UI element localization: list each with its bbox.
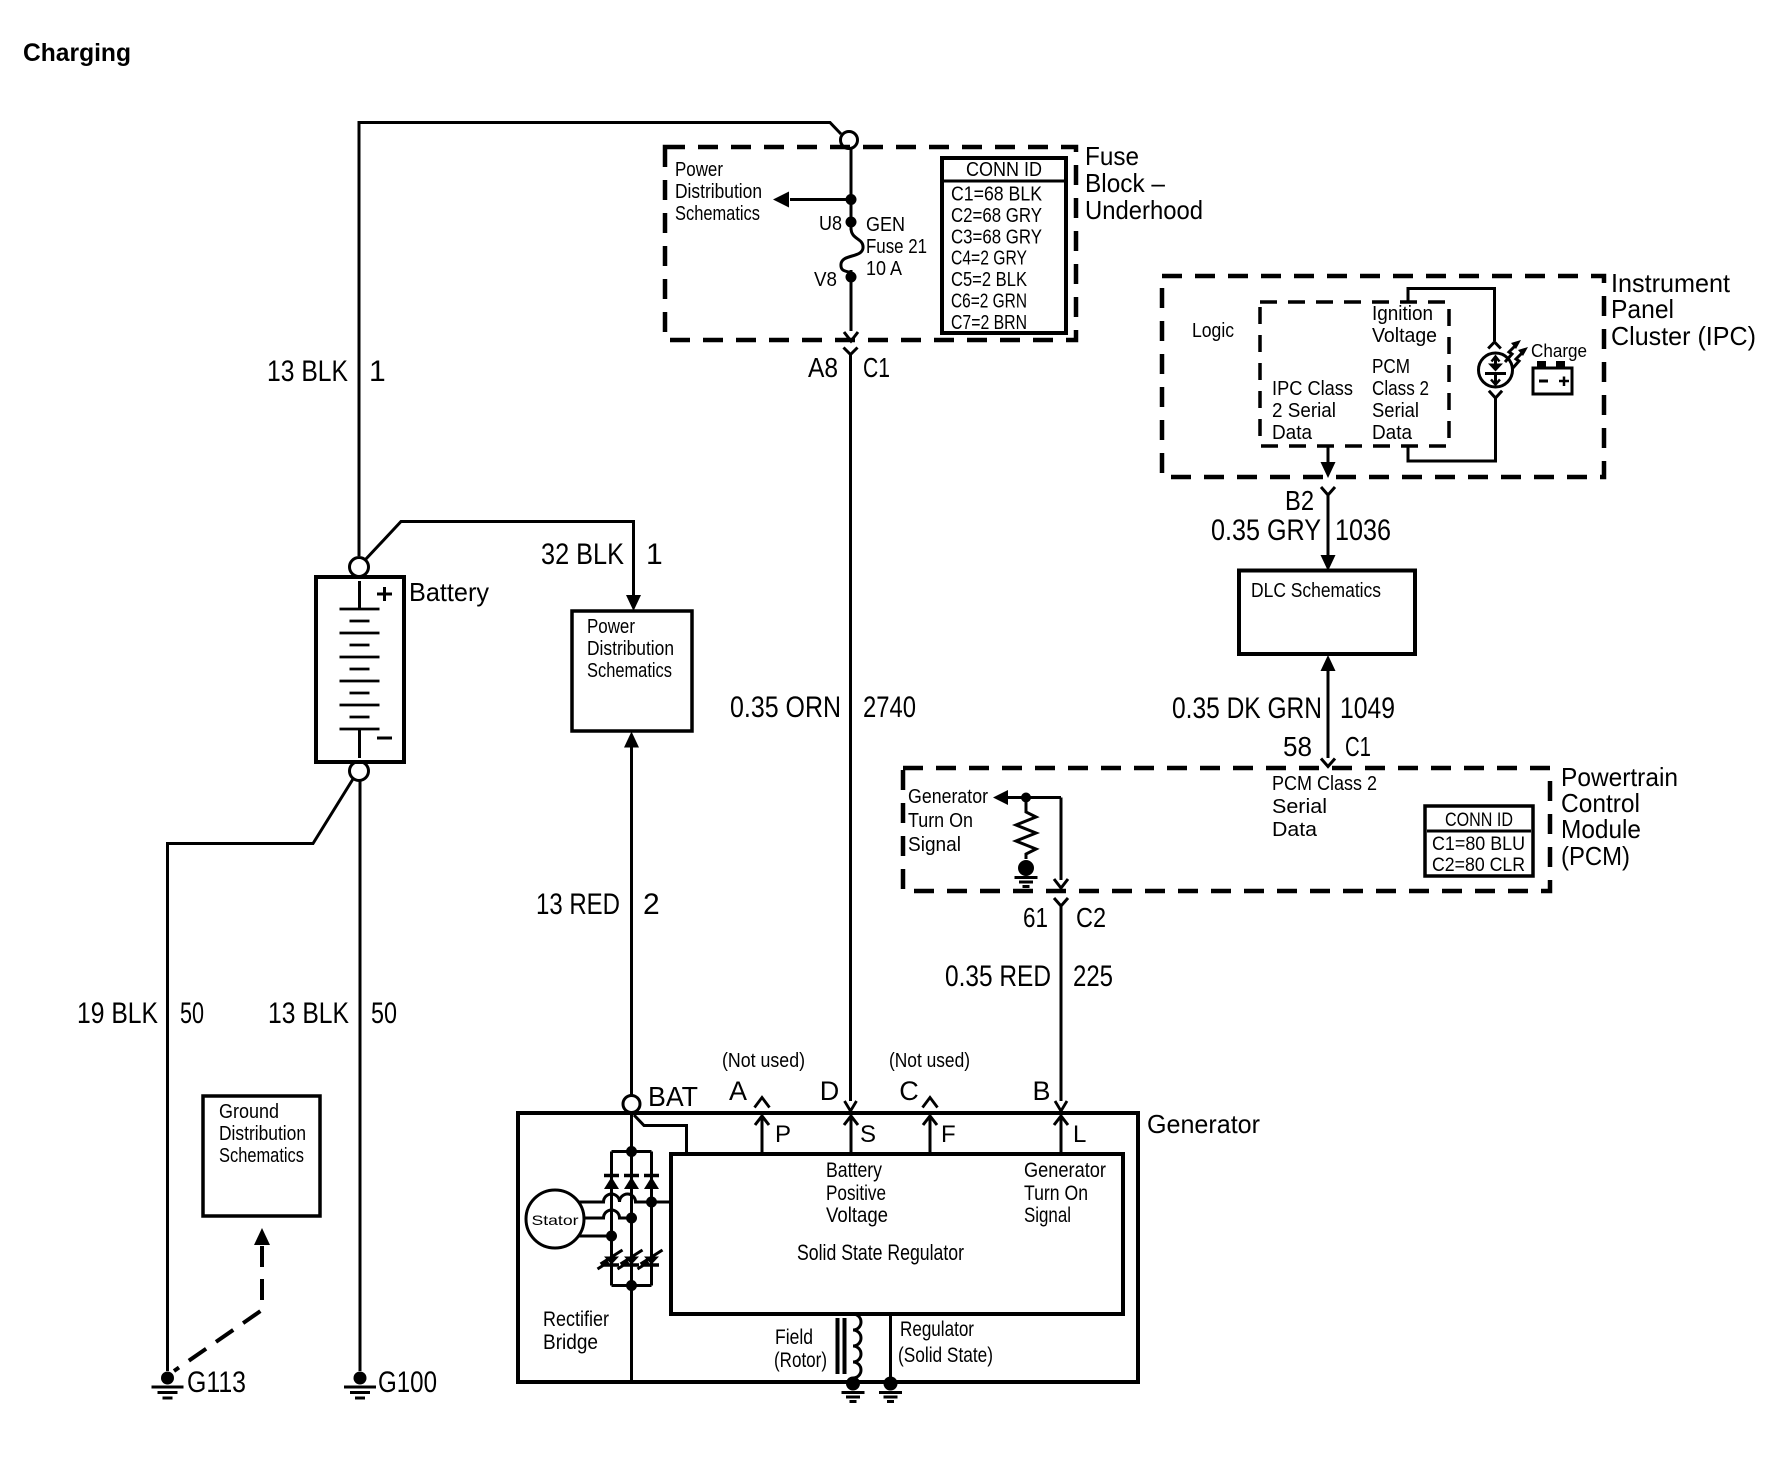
svg-text:DLC Schematics: DLC Schematics [1251,580,1381,602]
svg-text:Distribution: Distribution [587,638,674,660]
svg-text:Positive: Positive [826,1182,886,1205]
svg-text:Rectifier: Rectifier [543,1308,609,1331]
svg-text:Data: Data [1372,422,1413,444]
svg-text:(PCM): (PCM) [1561,841,1630,871]
svg-text:B2: B2 [1285,485,1314,516]
svg-text:0.35 GRY: 0.35 GRY [1211,514,1321,547]
svg-text:Cluster (IPC): Cluster (IPC) [1611,321,1756,351]
svg-text:Field: Field [775,1326,813,1349]
svg-text:Schematics: Schematics [587,660,672,682]
svg-text:Battery: Battery [409,577,489,607]
svg-text:C1: C1 [863,352,890,383]
svg-text:1: 1 [369,355,386,388]
svg-text:G113: G113 [187,1366,246,1399]
svg-text:A: A [729,1076,747,1106]
svg-text:C4=2 GRY: C4=2 GRY [951,248,1027,270]
svg-text:C1=80 BLU: C1=80 BLU [1432,834,1525,855]
svg-text:Class 2: Class 2 [1372,378,1429,400]
svg-text:Block –: Block – [1085,168,1166,198]
svg-text:19 BLK: 19 BLK [77,997,158,1030]
svg-text:Data: Data [1272,422,1313,444]
svg-text:50: 50 [371,997,397,1030]
svg-text:1036: 1036 [1335,514,1391,547]
svg-text:BAT: BAT [648,1081,698,1112]
svg-text:2740: 2740 [863,691,916,724]
svg-text:Charging: Charging [23,39,131,67]
svg-text:58: 58 [1283,731,1312,762]
svg-text:Battery: Battery [826,1159,882,1182]
svg-text:C5=2 BLK: C5=2 BLK [951,269,1028,291]
svg-text:C2=68 GRY: C2=68 GRY [951,205,1042,227]
svg-text:C6=2 GRN: C6=2 GRN [951,291,1027,313]
svg-text:Bridge: Bridge [543,1331,598,1354]
svg-text:Distribution: Distribution [219,1123,306,1145]
svg-text:C3=68 GRY: C3=68 GRY [951,226,1042,248]
svg-text:C2=80 CLR: C2=80 CLR [1432,855,1525,876]
svg-text:0.35 DK GRN: 0.35 DK GRN [1172,692,1322,725]
svg-text:Power: Power [675,159,723,181]
svg-text:Module: Module [1561,814,1641,844]
svg-text:Underhood: Underhood [1085,195,1203,225]
svg-text:(Solid State): (Solid State) [898,1344,993,1367]
svg-text:C1=68 BLK: C1=68 BLK [951,184,1043,206]
svg-text:CONN ID: CONN ID [966,159,1042,181]
svg-text:S: S [860,1121,876,1148]
svg-text:Schematics: Schematics [219,1145,304,1167]
svg-text:Solid State Regulator: Solid State Regulator [797,1240,964,1265]
svg-text:2: 2 [643,888,660,921]
svg-text:GEN: GEN [866,214,905,236]
svg-text:(Not used): (Not used) [722,1050,805,1072]
svg-text:CONN ID: CONN ID [1445,810,1513,831]
svg-text:Fuse 21: Fuse 21 [866,236,927,258]
svg-text:F: F [941,1121,956,1148]
svg-text:1049: 1049 [1340,692,1395,725]
svg-text:Ignition: Ignition [1372,303,1433,325]
svg-text:C7=2 BRN: C7=2 BRN [951,312,1027,334]
svg-text:Signal: Signal [1024,1204,1071,1227]
svg-text:P: P [775,1121,791,1148]
svg-text:Power: Power [587,616,635,638]
svg-text:C1: C1 [1345,731,1371,762]
svg-text:0.35 RED: 0.35 RED [945,960,1051,993]
svg-text:Schematics: Schematics [675,203,760,225]
svg-text:1: 1 [646,538,663,571]
svg-text:U8: U8 [819,213,842,235]
svg-text:PCM Class 2: PCM Class 2 [1272,773,1377,795]
svg-text:Charge: Charge [1531,341,1587,361]
svg-text:225: 225 [1073,960,1113,993]
svg-text:C2: C2 [1076,902,1106,933]
svg-text:C: C [899,1076,919,1106]
svg-text:Voltage: Voltage [826,1204,888,1227]
svg-text:Regulator: Regulator [900,1318,974,1341]
svg-text:(Rotor): (Rotor) [774,1349,827,1372]
svg-text:Ground: Ground [219,1101,279,1123]
svg-text:(Not used): (Not used) [889,1050,970,1072]
svg-text:13 BLK: 13 BLK [267,355,348,388]
svg-text:B: B [1032,1076,1050,1106]
svg-text:Turn On: Turn On [1024,1182,1088,1205]
svg-text:Data: Data [1272,819,1318,841]
svg-text:G100: G100 [378,1366,437,1399]
svg-text:Voltage: Voltage [1372,325,1437,347]
svg-text:61: 61 [1023,902,1048,933]
svg-text:Serial: Serial [1372,400,1419,422]
svg-text:Distribution: Distribution [675,181,762,203]
svg-text:0.35 ORN: 0.35 ORN [730,691,841,724]
svg-text:Serial: Serial [1272,796,1327,818]
svg-text:D: D [820,1076,840,1106]
svg-text:Logic: Logic [1192,320,1234,342]
svg-text:PCM: PCM [1372,356,1410,378]
svg-text:2 Serial: 2 Serial [1272,400,1336,422]
svg-text:Turn On: Turn On [908,810,973,832]
svg-text:Panel: Panel [1611,294,1674,324]
svg-text:Signal: Signal [908,834,961,856]
svg-text:13 BLK: 13 BLK [268,997,349,1030]
svg-text:32 BLK: 32 BLK [541,538,624,571]
svg-text:V8: V8 [814,269,837,291]
svg-text:IPC Class: IPC Class [1272,378,1353,400]
svg-text:L: L [1073,1121,1086,1148]
svg-text:Stator: Stator [532,1212,579,1228]
svg-text:10 A: 10 A [866,258,903,280]
svg-text:Generator: Generator [908,786,988,808]
svg-text:Generator: Generator [1147,1109,1260,1139]
svg-text:50: 50 [180,997,204,1030]
svg-text:Fuse: Fuse [1085,141,1139,171]
svg-text:Generator: Generator [1024,1159,1106,1182]
svg-text:13 RED: 13 RED [536,888,620,921]
svg-text:A8: A8 [808,352,838,383]
